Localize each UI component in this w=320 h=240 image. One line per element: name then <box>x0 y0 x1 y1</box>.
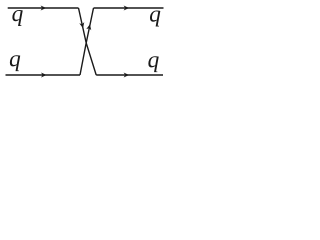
internal fermion line A (top-left corner to bottom-right corner) <box>79 8 97 75</box>
label q bottom-right <box>148 56 158 72</box>
arrow on internal line B (pointing up-right) <box>86 24 92 31</box>
label q top-left <box>12 10 22 26</box>
arrow on top-left line <box>41 5 47 10</box>
label q top-right <box>150 10 160 26</box>
internal fermion line B (bottom-left corner to top-right corner) <box>80 8 94 75</box>
arrow on internal line A (pointing down-right) <box>79 22 85 29</box>
arrow on bottom-right line <box>124 72 130 77</box>
arrow on top-right line <box>124 5 130 10</box>
label q bottom-left <box>10 55 20 71</box>
quark line bottom-left (incoming q) <box>6 74 81 76</box>
quark line top-left (incoming q) <box>8 7 79 9</box>
quark line bottom-right (outgoing q) <box>96 74 163 76</box>
quark line top-right (outgoing q) <box>94 7 164 9</box>
arrow on bottom-left line <box>41 72 47 77</box>
